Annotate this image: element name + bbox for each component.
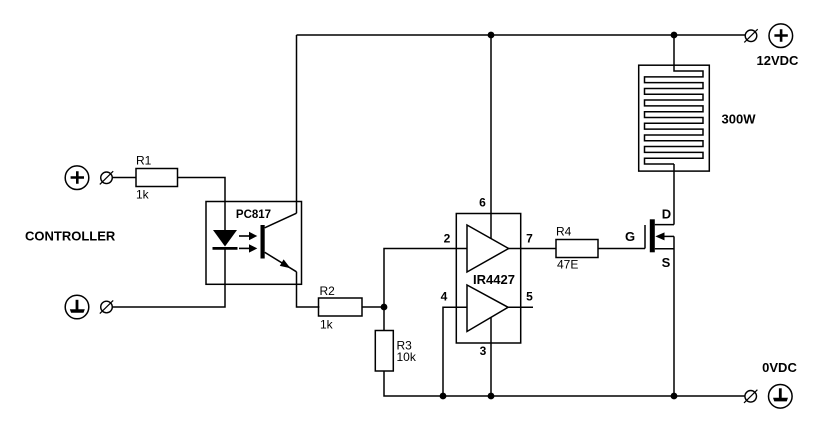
pin 4 wire from 0V rail [443,307,467,396]
svg-text:7: 7 [526,232,533,246]
wire node A to R3 [383,307,385,331]
wire R2 to node A [362,306,384,308]
terminal + 12VDC [769,24,793,48]
wire emitter down to R2 [297,272,320,307]
resistor R4 [556,225,598,272]
wire collector up to 12V rail [296,35,298,213]
svg-text:R4: R4 [556,225,572,239]
svg-text:47E: 47E [557,258,578,272]
svg-text:5: 5 [526,290,533,304]
LED D1 inside opto [213,230,238,248]
wire R4 to gate [598,248,645,250]
svg-text:12VDC: 12VDC [757,53,800,68]
wire R3 down to 0V rail [384,371,745,396]
svg-text:300W: 300W [722,112,757,127]
svg-text:3: 3 [480,344,487,358]
wire source down to 0V rail [673,236,675,396]
transistor Q1 gate lead [644,225,646,249]
svg-text:IR4427: IR4427 [473,272,515,287]
resistor R3 [375,331,417,372]
junction dot pin4/0V rail [440,393,447,400]
junction dot source/0V rail [671,393,678,400]
svg-text:R1: R1 [136,154,152,168]
junction dot heater/rail [671,32,678,39]
svg-text:G: G [625,229,635,244]
resistor R2 [319,284,363,332]
controller ground pad (slashed circle) [100,300,113,313]
0VDC pad (slashed circle) [744,390,757,403]
phototransistor collector line [265,213,297,228]
svg-text:S: S [662,255,671,270]
terminal + (controller plus) [65,166,89,190]
phototransistor base plate [261,225,265,259]
12V top rail [297,34,746,36]
source lead [655,248,674,250]
svg-text:D: D [662,207,671,222]
resistor R1 [136,154,178,202]
pin 5 stub wire [508,306,533,308]
transistor Q1 channel bar [650,219,655,252]
svg-text:6: 6 [479,196,486,210]
junction dot pin3/0V rail [488,393,495,400]
wire LED cathode down and left to ground pad [112,249,225,308]
buffer A triangle (pins 2-7) [467,225,509,272]
12VDC pad (slashed circle) [744,29,757,42]
svg-text:10k: 10k [397,350,417,364]
pin 3 wire to 0V rail [490,318,492,397]
opto-coupler U1 PC817 box [206,202,302,285]
terminal ground (controller) [65,295,89,319]
drain lead [655,224,674,226]
light arrow 2 [239,244,257,252]
terminal ground 0VDC [769,385,793,409]
pin 7 wire to R4 [509,248,556,250]
svg-text:2: 2 [444,232,451,246]
svg-text:0VDC: 0VDC [762,360,797,375]
wire node A up to pin 2 [384,249,467,308]
buffer B triangle (pins 4-5) [467,285,508,332]
light arrow 1 [239,232,257,240]
svg-text:R2: R2 [320,284,336,298]
controller + pad (slashed circle) [100,171,113,184]
wire drain up to heater [673,164,675,225]
phototransistor emitter line with arrow [265,252,297,271]
heater meander element [645,35,704,164]
svg-text:4: 4 [441,290,448,304]
node A junction dot (R2/R3/pin2) [381,304,388,311]
body lead with arrow [655,232,674,240]
heater element box [639,65,710,171]
svg-text:CONTROLLER: CONTROLLER [25,229,116,244]
svg-text:1k: 1k [136,188,150,202]
pin 6 wire from rail [490,35,492,239]
wire R1 to optocoupler LED anode [178,178,226,231]
svg-text:PC817: PC817 [236,209,271,221]
wire pad to R1 [112,177,136,179]
junction dot pin6/rail [488,32,495,39]
driver U2 IR4427 box [456,214,520,344]
svg-text:1k: 1k [320,318,334,332]
